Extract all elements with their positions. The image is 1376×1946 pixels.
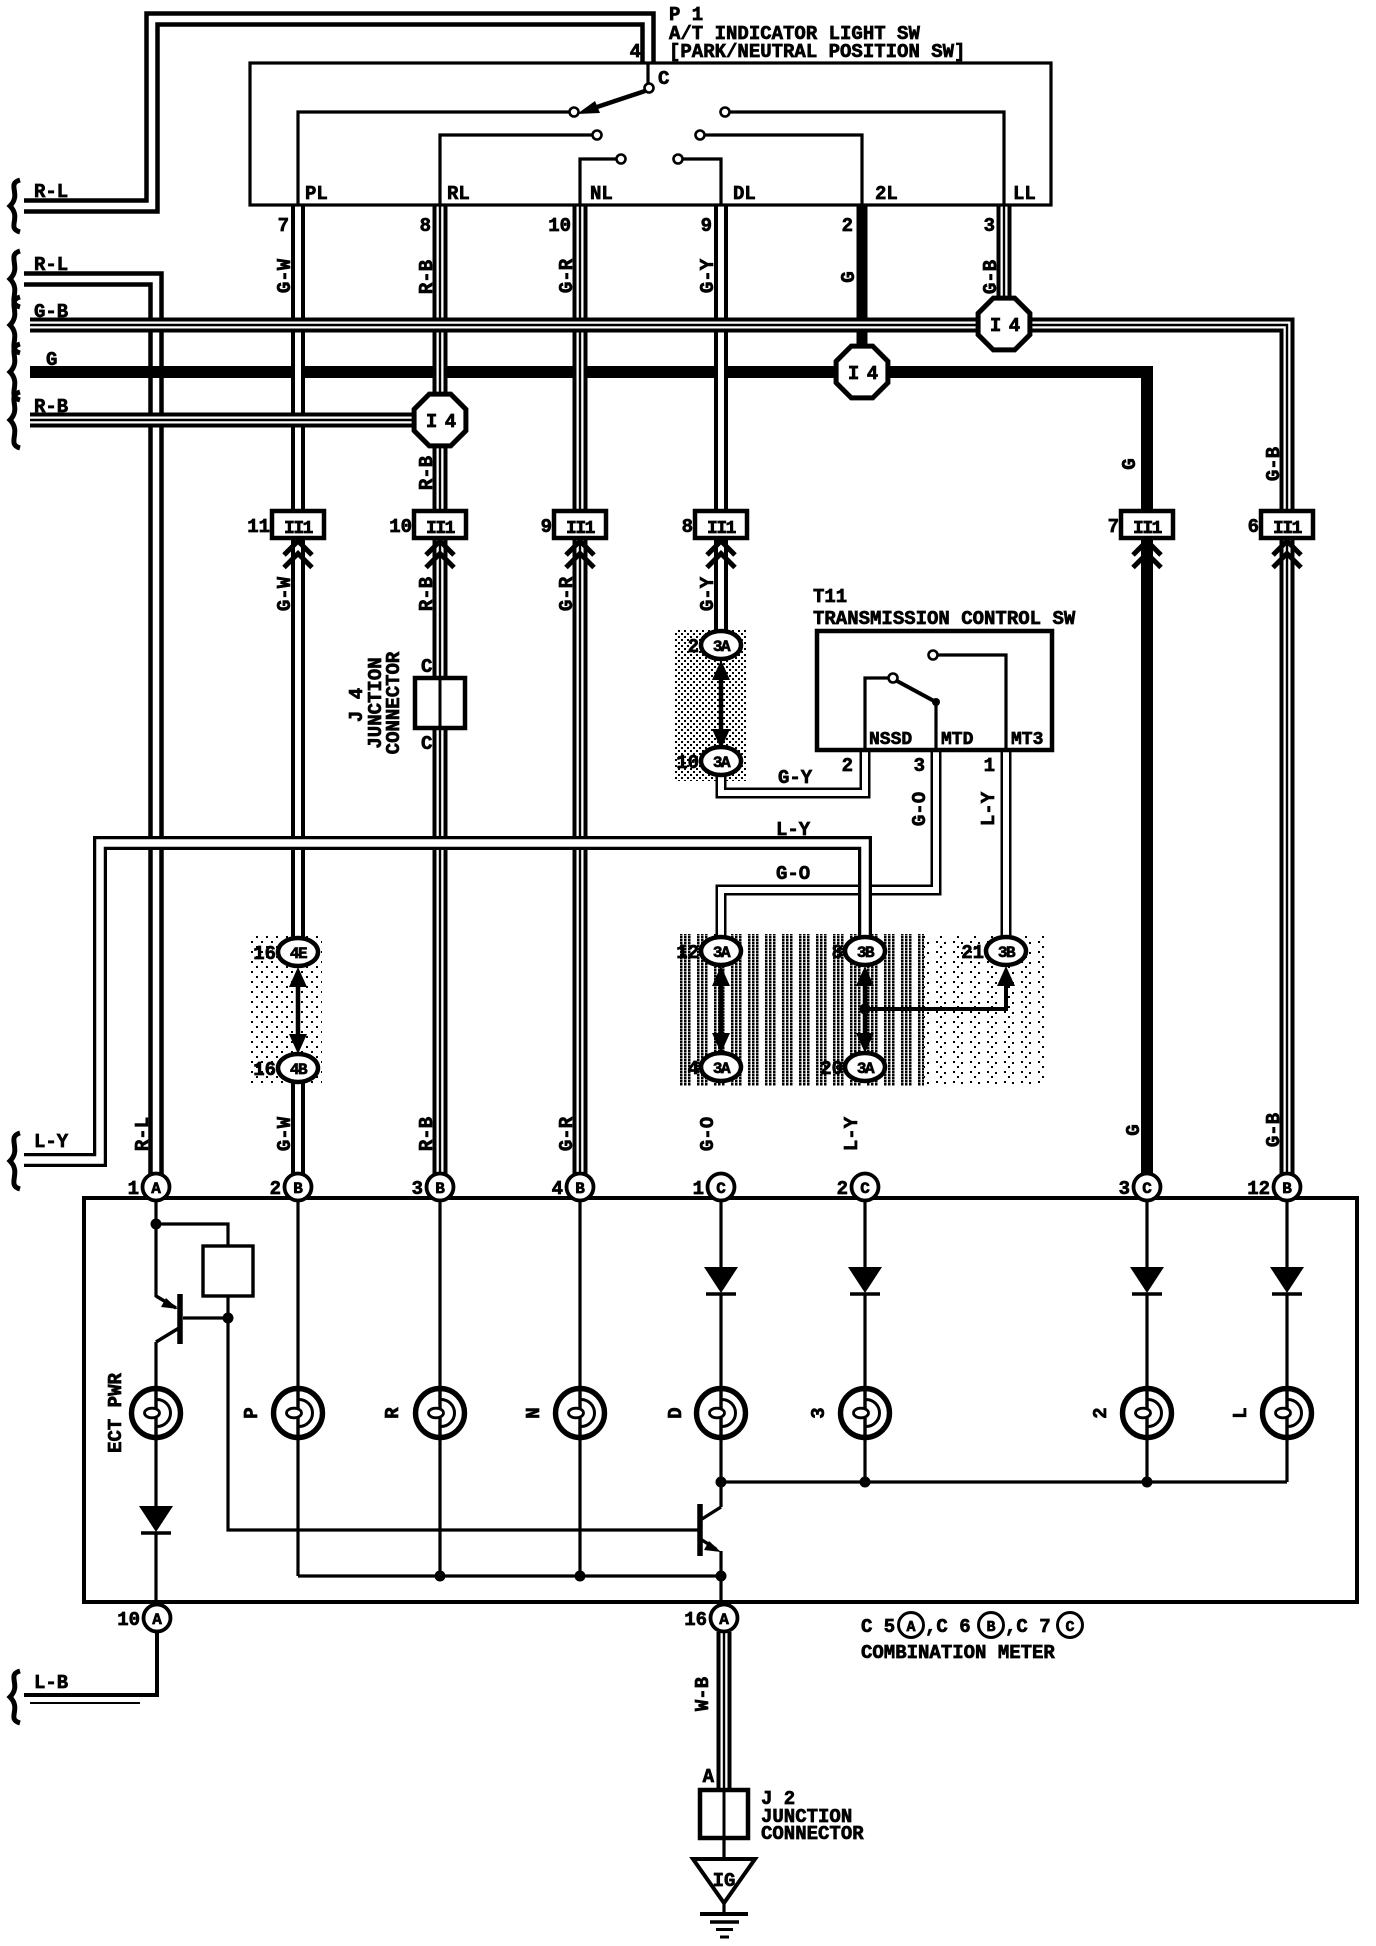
svg-text:R-B: R-B (416, 1117, 438, 1151)
wire label L-Y on MT3 riser (978, 791, 1000, 826)
meter terminal 3(B) (427, 1174, 454, 1201)
wire G-O elbow from T11 MTD pin 3 to 12(3A) (721, 748, 936, 940)
svg-text:3A: 3A (713, 944, 731, 962)
svg-text:G-Y: G-Y (697, 576, 719, 611)
wire label G-Y upper (697, 258, 719, 293)
switch P1 A/T indicator light switch box (250, 63, 1051, 205)
junction I4 on R-B bus at RL wire (414, 394, 466, 446)
wire label G-O on MTD riser (909, 792, 931, 826)
svg-text:NL: NL (590, 183, 613, 205)
svg-text:C: C (716, 1180, 726, 1198)
svg-text:G-O: G-O (697, 1117, 719, 1151)
shading around connector pair 2(3A)/10(3A) (674, 629, 746, 781)
svg-text:16: 16 (253, 1059, 276, 1081)
svg-text:RL: RL (447, 183, 470, 205)
P1 NL contact and riser (617, 155, 626, 164)
svg-text:II1: II1 (707, 519, 737, 539)
node junction at 1A feed (154, 1201, 157, 1297)
wire R-L stub 2 riser to combination meter pin 1A (hollow) (24, 279, 156, 1174)
T11 MTD riser (934, 702, 937, 748)
wire label G-R lower (556, 1116, 578, 1151)
svg-text:G-B: G-B (1263, 1113, 1285, 1147)
svg-text:,C 6: ,C 6 (925, 1616, 971, 1638)
connector 10(3A) (701, 747, 741, 775)
wire 2L G thick vertical (pin 2 to I4 octagon) (857, 205, 868, 372)
wire diode to lamp D (719, 1294, 722, 1388)
svg-text:W-B: W-B (692, 1677, 714, 1711)
wire L-Y from T11 MT3 pin 1 to 21(3B) (1001, 748, 1012, 940)
svg-text:1: 1 (128, 1178, 139, 1200)
svg-text:8: 8 (832, 942, 843, 964)
svg-text:1: 1 (693, 1178, 704, 1200)
diode in 2 branch (1130, 1267, 1164, 1293)
wire emitter node to meter pin 16A (719, 1576, 722, 1600)
svg-text:II1: II1 (1273, 519, 1303, 539)
meter terminal 1(C) (708, 1174, 735, 1201)
svg-text:TRANSMISSION CONTROL SW: TRANSMISSION CONTROL SW (813, 608, 1076, 630)
connector 16(4B) (278, 1054, 318, 1082)
wire 3C to diode 2 (1145, 1201, 1148, 1267)
svg-text:II1: II1 (1133, 519, 1163, 539)
svg-text:B: B (575, 1180, 585, 1198)
lamp L (1263, 1389, 1312, 1438)
P1 common contact C (645, 84, 654, 93)
wire label L-Y lower (841, 1116, 863, 1151)
wire R-L stub 1 to P1 pin 4 (hollow) (24, 19, 648, 206)
svg-text:3B: 3B (998, 944, 1016, 962)
lamp N (556, 1389, 605, 1438)
wire label G upper (838, 271, 860, 282)
wire label R-B lower (416, 1117, 438, 1151)
wire label R-B upper (416, 260, 438, 294)
svg-text:G-O: G-O (909, 792, 931, 826)
wire label G-Y mid (697, 576, 719, 611)
ground symbol (722, 1903, 725, 1913)
svg-text:10: 10 (676, 752, 699, 774)
transistor Q2 (NPN) base bar and leads (719, 1482, 722, 1507)
svg-text:R: R (382, 1407, 404, 1419)
svg-text:12: 12 (676, 942, 699, 964)
svg-text:4: 4 (630, 41, 641, 63)
wire label G-W lower (274, 1116, 296, 1151)
wire L-Y long run from stub to 8(3B) (24, 843, 865, 1160)
svg-text:L: L (1230, 1407, 1252, 1418)
svg-text:D: D (665, 1407, 687, 1418)
wire 12B to diode L (1285, 1201, 1288, 1267)
svg-text:R-B: R-B (416, 260, 438, 294)
wire label R-L lower (132, 1117, 154, 1151)
svg-text:3: 3 (412, 1178, 423, 1200)
wire lamp P to emitter bus (296, 1438, 299, 1576)
connector stub G-B (10, 297, 20, 353)
meter terminal 10(A) bottom (144, 1605, 171, 1632)
svg-text:4E: 4E (290, 945, 307, 963)
wire W-B from meter pin 16A to J2 junction connector (717, 1632, 732, 1790)
svg-text:C: C (860, 1180, 870, 1198)
connector stub L-B (10, 1671, 20, 1723)
svg-text:7: 7 (278, 215, 289, 237)
svg-text:10: 10 (389, 516, 412, 538)
wire lamp N to emitter bus (578, 1438, 581, 1576)
svg-text:2L: 2L (875, 183, 898, 205)
svg-text:CONNECTOR: CONNECTOR (761, 1823, 864, 1845)
svg-text:A: A (151, 1180, 161, 1198)
IG ground triangle (693, 1859, 755, 1903)
svg-text:II1: II1 (566, 519, 596, 539)
meter terminal 4(B) (567, 1174, 594, 1201)
wire NL G-R vertical (pin 10 to meter pin 4B) (573, 205, 588, 1174)
wire diode to lamp L (1285, 1294, 1288, 1388)
svg-text:N: N (523, 1407, 545, 1418)
svg-text:IG: IG (713, 1870, 736, 1892)
lamp R (416, 1389, 465, 1438)
connector 6 II1 on G-B wire (1261, 511, 1313, 538)
meter terminal 12(B) (1274, 1174, 1301, 1201)
svg-text:DL: DL (733, 183, 756, 205)
P1 PL contact and riser (570, 108, 579, 117)
svg-text:2: 2 (837, 1178, 848, 1200)
wire lamp R to emitter bus (438, 1438, 441, 1576)
svg-text:3B: 3B (857, 944, 875, 962)
svg-text:2: 2 (842, 215, 853, 237)
svg-text:6: 6 (1248, 516, 1259, 538)
svg-text:L-Y: L-Y (841, 1116, 863, 1151)
svg-text:R-L: R-L (34, 254, 68, 276)
svg-text:G: G (1123, 1124, 1145, 1135)
wire L-B stub to meter pin 10A (24, 1632, 157, 1695)
wire label G right vertical (1119, 458, 1141, 469)
diode in D branch (704, 1267, 738, 1293)
connector 8 II1 on G-Y wire (695, 511, 747, 538)
arrow between 8(3B) and 20(3A) (863, 978, 868, 1041)
wire from resistor to base node (226, 1296, 229, 1318)
svg-text:P: P (241, 1407, 263, 1418)
svg-text:12: 12 (1247, 1178, 1270, 1200)
meter terminal 1(A) (143, 1174, 170, 1201)
meter terminal 3(C) (1134, 1174, 1161, 1201)
diode in L branch (1270, 1267, 1304, 1293)
svg-text:3A: 3A (713, 1060, 731, 1078)
wire label G-R mid (556, 576, 578, 611)
transistor Q2 emitter with arrow (702, 1540, 716, 1549)
connector 8(3B) on L-Y wire (845, 937, 885, 965)
wire J2 to IG ground (722, 1838, 725, 1859)
svg-text:G-B: G-B (34, 301, 68, 323)
arrow between 2(3A) and 10(3A) (719, 672, 724, 737)
T11 MT3 contact and riser (929, 651, 938, 660)
svg-text:A: A (152, 1611, 162, 1629)
svg-text:G-Y: G-Y (778, 767, 813, 789)
svg-text:G-W: G-W (274, 576, 296, 611)
connector 10 II1 on R-B wire (414, 511, 466, 538)
svg-text:9: 9 (541, 516, 552, 538)
emitter bus joining lamps P R N (298, 1574, 721, 1577)
P1 switch arm from C to PL contact (arrow) (585, 91, 645, 111)
wire lamp L to collector bus (1285, 1438, 1288, 1482)
combination meter box (84, 1198, 1357, 1602)
svg-text:C 5: C 5 (861, 1616, 895, 1638)
diode in 3 branch (848, 1267, 882, 1293)
svg-text:8: 8 (682, 516, 693, 538)
collector bus joining lamps D 3 2 L (721, 1480, 1287, 1483)
wire label R-B below octagon (416, 456, 438, 490)
svg-text:C: C (421, 733, 432, 755)
connector stub R-L (top) (10, 180, 20, 232)
svg-text:I 4: I 4 (848, 363, 878, 385)
wire diode to lamp 3 (863, 1294, 866, 1388)
svg-text:NSSD: NSSD (869, 730, 912, 750)
connector 2(3A) on G-Y wire (701, 631, 741, 659)
wire label G-R upper (556, 258, 578, 293)
wire DL G-Y vertical (pin 9 to connector 2(3A)) (714, 205, 728, 634)
svg-text:G-B: G-B (1263, 447, 1285, 481)
svg-text:R-B: R-B (34, 396, 68, 418)
svg-text:3A: 3A (713, 754, 731, 772)
svg-text:L-Y: L-Y (34, 1131, 69, 1153)
wire lamp to diode (154, 1438, 157, 1506)
wire 3B to lamp R (438, 1201, 441, 1388)
svg-text:3: 3 (984, 215, 995, 237)
P1 2L contact and riser (696, 131, 705, 140)
wire 2C to diode 3 (863, 1201, 866, 1267)
lamp 2 (1123, 1389, 1172, 1438)
junction I4 on G-B bus at LL wire (978, 298, 1030, 350)
P1 RL contact and riser (593, 131, 602, 140)
lamp P (274, 1389, 323, 1438)
wire lamp 3 to collector bus (863, 1438, 866, 1482)
T11 NSSD riser and fixed contact (865, 678, 888, 748)
svg-text:G: G (1119, 458, 1141, 469)
svg-text:8: 8 (420, 215, 431, 237)
svg-text:G-R: G-R (556, 1116, 578, 1151)
svg-text:II1: II1 (426, 519, 456, 539)
wire label G-B upper (980, 260, 1002, 294)
lamp ECT PWR (132, 1389, 181, 1438)
wire label G-W upper (274, 258, 296, 293)
svg-text:I 4: I 4 (426, 411, 456, 433)
svg-text:7: 7 (1108, 516, 1119, 538)
svg-text:C: C (1065, 1619, 1074, 1636)
connector stub R-B (10, 392, 20, 448)
connector 12(3A) on G-O wire (701, 937, 741, 965)
transistor Q1 (PNP) base bar and leads (177, 1294, 183, 1344)
svg-text:,C 7: ,C 7 (1005, 1616, 1051, 1638)
svg-text:3: 3 (914, 755, 925, 777)
svg-text:3A: 3A (857, 1060, 875, 1078)
svg-text:B: B (986, 1619, 995, 1636)
wire label G-O lower (697, 1117, 719, 1151)
wire lamp 2 to collector bus (1145, 1438, 1148, 1482)
svg-text:3: 3 (808, 1407, 830, 1418)
svg-text:G: G (46, 349, 57, 371)
svg-text:C: C (658, 68, 669, 90)
arrow between 12(3A) and 4(3A) (719, 978, 724, 1041)
svg-text:COMBINATION METER: COMBINATION METER (861, 1642, 1055, 1664)
junction connector J4 on R-B wire (415, 678, 465, 728)
svg-text:2: 2 (842, 755, 853, 777)
meter terminal 2(C) (852, 1174, 879, 1201)
wire G-Y elbow from 10(3A) to T11 NSSD pin 2 (721, 748, 865, 793)
wire 2B to lamp P (296, 1201, 299, 1388)
T11 switch arm NSSD to MTD (897, 681, 934, 701)
connector stub R-L (second) (10, 251, 20, 307)
svg-text:G-B: G-B (980, 260, 1002, 294)
svg-text:20: 20 (820, 1058, 843, 1080)
lamp D (697, 1389, 746, 1438)
connector stub G (10, 344, 20, 400)
svg-text:G-W: G-W (274, 258, 296, 293)
svg-text:9: 9 (701, 215, 712, 237)
svg-text:4: 4 (552, 1178, 563, 1200)
svg-text:T11: T11 (813, 586, 847, 608)
connector 7 II1 on G wire (1121, 511, 1173, 538)
svg-text:R-L: R-L (132, 1117, 154, 1151)
svg-text:LL: LL (1013, 183, 1036, 205)
svg-text:G-O: G-O (776, 863, 810, 885)
svg-text:C: C (1142, 1180, 1152, 1198)
svg-text:G-R: G-R (556, 576, 578, 611)
connector 16(4E) on G-W wire (278, 938, 318, 966)
wire 1C to diode D (719, 1201, 722, 1267)
wire G-B bus from stub via I4 octagon to connector 6 / meter pin 12B (30, 325, 1287, 1174)
svg-text:C: C (421, 656, 432, 678)
switch T11 transmission control sw box (817, 631, 1052, 750)
wire LL G-B vertical (pin 3 to I4 octagon) (997, 205, 1012, 324)
svg-text:ECT PWR: ECT PWR (105, 1373, 127, 1453)
meter terminal 16(A) bottom (711, 1605, 738, 1632)
svg-text:4: 4 (688, 1058, 699, 1080)
svg-text:3A: 3A (713, 638, 731, 656)
svg-text:21: 21 (961, 942, 984, 964)
meter terminal 2(B) (285, 1174, 312, 1201)
connector 9 II1 on G-R wire (554, 511, 606, 538)
svg-text:G-R: G-R (556, 258, 578, 293)
svg-text:CONNECTOR: CONNECTOR (383, 651, 405, 754)
svg-text:2: 2 (688, 636, 699, 658)
wire diode to meter pin 10A (154, 1533, 157, 1600)
resistor square in ECT PWR transistor base circuit (156, 1224, 228, 1246)
svg-text:L-B: L-B (34, 1672, 68, 1694)
wire R-B bus from stub to I4 octagon (30, 413, 440, 428)
wire base of Q2 to base node of Q1 (228, 1318, 698, 1530)
shading around connector pair 16(4E)/16(4B) (248, 936, 322, 1086)
svg-text:3: 3 (1119, 1178, 1130, 1200)
junction I4 on G bus at 2L wire (836, 346, 888, 398)
svg-text:A: A (719, 1611, 729, 1629)
svg-text:16: 16 (684, 1609, 707, 1631)
wire RL R-B vertical (pin 8 to meter pin 3B) (433, 205, 448, 1174)
svg-text:G-W: G-W (274, 1116, 296, 1151)
svg-text:A: A (906, 1619, 915, 1636)
svg-text:R-L: R-L (34, 181, 68, 203)
svg-text:A: A (703, 1766, 715, 1788)
svg-text:L-Y: L-Y (978, 791, 1000, 826)
wire G thick bus from stub to connector 7 / meter pin 3C (30, 372, 1147, 1174)
arrow between 16(4E) and 16(4B) (296, 979, 301, 1042)
svg-text:MTD: MTD (941, 730, 974, 750)
svg-text:16: 16 (253, 943, 276, 965)
connector stub L-Y (10, 1133, 20, 1189)
svg-text:10: 10 (117, 1609, 140, 1631)
wire PL G-W vertical (pin 7 to meter pin 2B) (291, 205, 305, 941)
wire 4B to lamp N (578, 1201, 581, 1388)
connector 11 II1 on G-W wire (272, 511, 324, 538)
wire label G lower (1123, 1124, 1145, 1135)
svg-text:R-B: R-B (416, 456, 438, 490)
svg-text:2: 2 (1090, 1407, 1112, 1418)
svg-text:B: B (293, 1180, 303, 1198)
svg-text:R-B: R-B (416, 577, 438, 611)
shading band around connector pairs 12(3A)/4(3A), 8(3B)/20(3A), 21(3B) (674, 934, 924, 1086)
svg-text:PL: PL (305, 183, 328, 205)
wire diode to lamp 2 (1145, 1294, 1148, 1388)
connector 20(3A) (845, 1053, 885, 1081)
wire label G-B right vertical (1263, 447, 1285, 481)
P1 DL contact and riser (674, 155, 683, 164)
svg-text:10: 10 (548, 215, 571, 237)
svg-text:G-Y: G-Y (697, 258, 719, 293)
diode in ECT PWR branch (139, 1506, 173, 1532)
connector 21(3B) on L-Y wire from MT3 (986, 937, 1026, 965)
svg-text:1: 1 (984, 755, 995, 777)
P1 LL contact and riser (721, 108, 730, 117)
svg-text:11: 11 (247, 516, 270, 538)
svg-text:B: B (1282, 1180, 1292, 1198)
lamp 3 (841, 1389, 890, 1438)
wire label R-B mid (416, 577, 438, 611)
svg-text:G: G (838, 271, 860, 282)
wire label G-B lower (1263, 1113, 1285, 1147)
junction connector J2 (700, 1790, 748, 1838)
P1 internal wire from pin 4 to common contact C (646, 64, 649, 83)
svg-text:I 4: I 4 (990, 315, 1020, 337)
svg-text:2: 2 (270, 1178, 281, 1200)
svg-text:[PARK/NEUTRAL POSITION SW]: [PARK/NEUTRAL POSITION SW] (669, 41, 965, 63)
svg-text:4B: 4B (290, 1061, 308, 1079)
svg-text:II1: II1 (284, 519, 314, 539)
wire transistor to ECT PWR lamp (154, 1342, 157, 1388)
wire label G-W mid (274, 576, 296, 611)
wire lamp D to collector node (719, 1438, 722, 1482)
svg-text:MT3: MT3 (1011, 730, 1043, 750)
wire label W-B (692, 1677, 714, 1711)
wire from junction to 21(3B) with arrow (865, 984, 1006, 1009)
svg-text:L-Y: L-Y (776, 819, 811, 841)
svg-text:B: B (435, 1180, 445, 1198)
connector 4(3A) (701, 1053, 741, 1081)
